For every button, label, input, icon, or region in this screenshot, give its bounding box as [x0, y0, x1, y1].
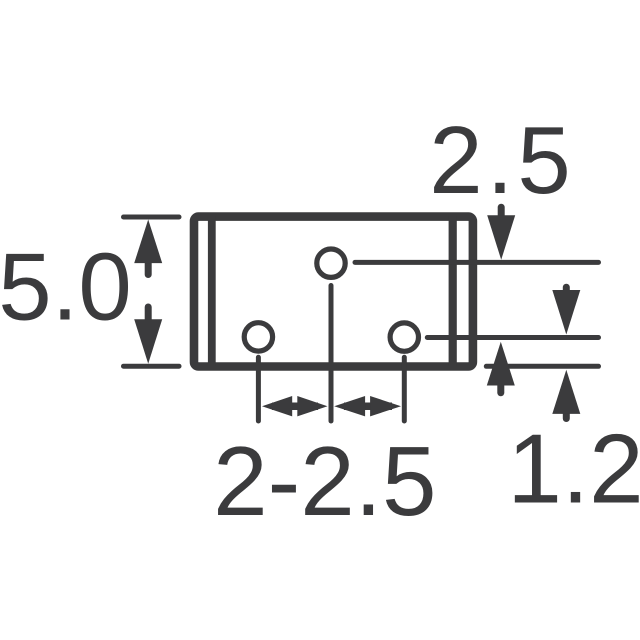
pin 1 circle (bottom left) — [244, 323, 272, 351]
1.2 up arrow shaft — [563, 412, 570, 419]
leader line from bottom-left circle down — [256, 357, 261, 421]
inner line right — [449, 216, 457, 366]
leader line from top circle down — [329, 286, 334, 422]
2-2.5 right arrowhead (pair 2) — [370, 396, 401, 416]
svg-text:2.5: 2.5 — [429, 107, 574, 214]
5.0 top tick — [124, 215, 180, 220]
2.5 up arrow shaft — [497, 384, 504, 393]
1.2 down arrowhead — [552, 290, 580, 335]
1.2 up arrowhead — [552, 370, 580, 414]
5.0 bottom tick — [124, 364, 180, 369]
inner line left — [208, 216, 216, 366]
2.5 up arrowhead — [487, 342, 515, 386]
2-2.5 arrow shaft (pair 1) — [272, 402, 318, 410]
5.0 down arrowhead — [134, 319, 162, 364]
leader line from bottom-right circle down — [402, 357, 407, 421]
2-2.5 left arrowhead (pair 1) — [262, 396, 292, 416]
2.5 down arrow shaft — [498, 207, 505, 216]
pin 3 circle (bottom right) — [390, 323, 418, 351]
svg-text:2-2.5: 2-2.5 — [213, 426, 436, 536]
5.0 up arrow shaft — [145, 262, 152, 275]
svg-text:5.0: 5.0 — [0, 234, 132, 341]
1.2 down arrow shaft — [563, 287, 570, 293]
2-2.5 left arrowhead (pair 2) — [334, 396, 365, 416]
1.2 lower extension line — [486, 364, 598, 369]
leader line from top circle to right — [355, 260, 599, 265]
5.0 up arrowhead — [134, 220, 162, 264]
5.0 down arrow shaft — [145, 307, 152, 321]
2.5 down arrowhead — [487, 215, 515, 259]
2-2.5 arrow shaft (pair 2) — [344, 402, 392, 410]
svg-text:1.2: 1.2 — [507, 414, 640, 524]
component body outline — [194, 217, 473, 367]
leader line from bottom-right circle to right — [427, 335, 598, 340]
pin 2 circle (top) — [317, 249, 345, 277]
2-2.5 right arrowhead (pair 1) — [297, 396, 327, 416]
